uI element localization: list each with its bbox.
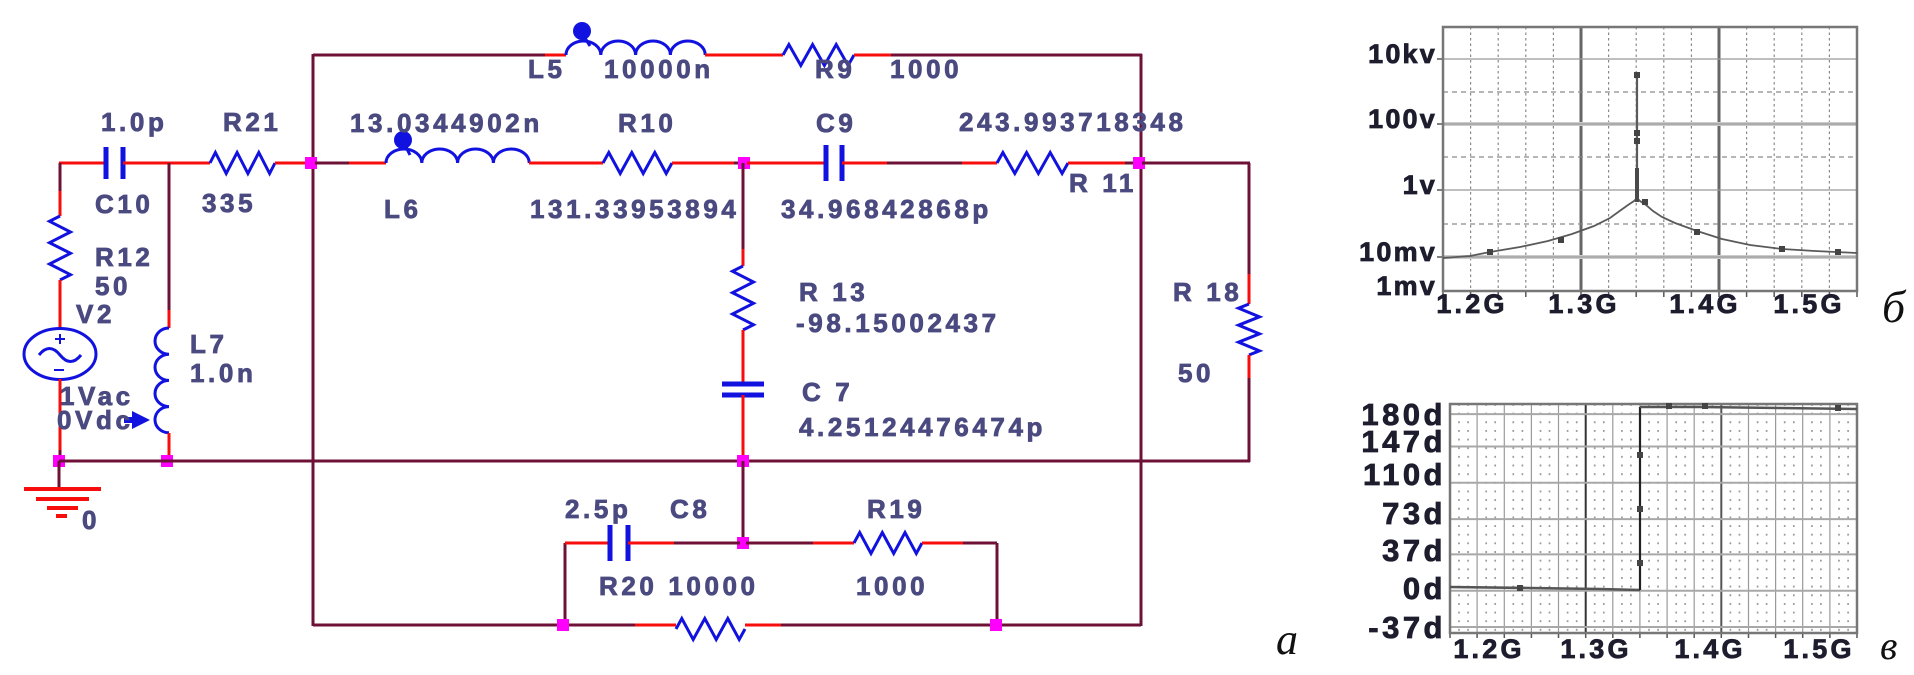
label 0Vdc — [57, 405, 134, 435]
wire R19 right vertical — [996, 543, 999, 626]
label C9 — [816, 108, 856, 138]
wire node to R18 branch — [1142, 162, 1250, 165]
label C7 — [802, 377, 853, 407]
wire C8 left vertical — [564, 543, 567, 626]
svg-text:0Vdc: 0Vdc — [57, 405, 134, 435]
svg-text:R19: R19 — [867, 494, 926, 524]
label 0 ground — [82, 505, 100, 535]
svg-text:R 18: R 18 — [1173, 277, 1242, 307]
label 34.96842868p — [781, 194, 992, 224]
plot b x-axis labels — [1436, 289, 1844, 319]
wire mid-left corner — [59, 162, 106, 165]
svg-text:C10: C10 — [95, 189, 154, 219]
label R20 10000 — [599, 571, 759, 601]
svg-text:1000: 1000 — [890, 54, 962, 84]
svg-text:1.0p: 1.0p — [101, 107, 167, 137]
svg-text:1.3G: 1.3G — [1560, 634, 1631, 664]
wire down to L7 — [168, 163, 171, 328]
label 4.25124476474p — [799, 412, 1046, 442]
source V2 — [24, 329, 96, 380]
node at bottom left — [557, 619, 569, 631]
wire R21 to node — [275, 162, 308, 165]
current marker arrow — [124, 411, 150, 429]
label R12 — [95, 242, 154, 272]
svg-text:2.5p: 2.5p — [565, 494, 631, 524]
label R11 — [1069, 168, 1137, 198]
wire C8 left lead — [565, 542, 610, 545]
label 335 — [202, 188, 256, 218]
svg-text:335: 335 — [202, 188, 256, 218]
svg-text:10kv: 10kv — [1368, 39, 1437, 69]
svg-text:1v: 1v — [1403, 170, 1437, 200]
plot v phase curve — [1450, 407, 1857, 590]
label 243.993718348 — [959, 107, 1187, 137]
svg-text:4.25124476474p: 4.25124476474p — [799, 412, 1046, 442]
wire L6 to R10 — [529, 162, 603, 165]
plot v grid and frame — [1450, 404, 1857, 638]
svg-text:C 7: C 7 — [802, 377, 853, 407]
svg-text:R20 10000: R20 10000 — [599, 571, 759, 601]
svg-text:1.3G: 1.3G — [1548, 289, 1619, 319]
plot v data markers — [1517, 403, 1841, 591]
label 1000 R9 — [890, 54, 962, 84]
svg-text:C8: C8 — [670, 494, 710, 524]
wire R10 to node — [672, 162, 741, 165]
resistor R9 — [783, 45, 854, 66]
label R13 — [799, 277, 868, 307]
svg-text:1mv: 1mv — [1376, 271, 1437, 301]
svg-text:б: б — [1882, 281, 1907, 332]
svg-text:1.4G: 1.4G — [1669, 289, 1740, 319]
label R19 — [867, 494, 926, 524]
resistor R18 — [1239, 304, 1260, 355]
wire node to R13 — [742, 163, 745, 266]
resistor R19 — [854, 533, 922, 554]
label 50 R18 — [1178, 358, 1214, 388]
plot b grid and frame — [1437, 27, 1857, 297]
wire L7 to bus — [168, 433, 171, 461]
svg-text:L7: L7 — [190, 329, 228, 359]
node at L7 bottom — [161, 455, 173, 467]
plot b y-axis labels — [1359, 39, 1437, 301]
node at R21/box junction — [305, 157, 317, 169]
wire node to C9 — [747, 162, 826, 165]
wire down from mid-left corner — [59, 163, 62, 216]
svg-text:R10: R10 — [618, 108, 677, 138]
svg-text:а: а — [1276, 615, 1298, 664]
wire node to R19 — [746, 542, 854, 545]
node at output — [1133, 157, 1145, 169]
svg-text:100v: 100v — [1368, 104, 1437, 134]
svg-text:1000: 1000 — [856, 571, 928, 601]
inductor L6 — [386, 149, 529, 163]
probe dot L6 — [394, 131, 412, 155]
svg-text:R12: R12 — [95, 242, 154, 272]
label 13.0344902n — [350, 108, 543, 138]
plot v x-axis labels — [1453, 634, 1854, 664]
wire R11 to node — [1068, 162, 1138, 165]
plot b data markers — [1487, 72, 1841, 255]
svg-text:R 11: R 11 — [1069, 168, 1137, 198]
label R10 — [618, 108, 677, 138]
wire top bus y=55 — [313, 54, 566, 57]
resistor R10 — [603, 153, 672, 174]
wire L5 to R9 — [705, 54, 783, 57]
label 131.33953894 — [530, 194, 739, 224]
node at bottom right — [990, 619, 1002, 631]
probe dot L5 — [573, 22, 591, 46]
svg-text:0d: 0d — [1403, 571, 1446, 606]
wire C7 to bus — [742, 395, 745, 461]
label 50 R12 — [95, 271, 131, 301]
svg-text:в: в — [1880, 623, 1897, 668]
svg-text:1.4G: 1.4G — [1674, 634, 1745, 664]
label R18 — [1173, 277, 1242, 307]
wire bottom bus y=625 — [313, 624, 676, 627]
plot b response curve — [1443, 198, 1857, 258]
wire R19 to corner — [922, 542, 997, 545]
svg-text:L6: L6 — [384, 194, 422, 224]
svg-text:37d: 37d — [1382, 533, 1446, 568]
svg-text:73d: 73d — [1382, 496, 1446, 531]
caption b — [1882, 281, 1907, 332]
svg-text:R21: R21 — [223, 107, 282, 137]
svg-text:34.96842868p: 34.96842868p — [781, 194, 992, 224]
resistor R20 — [676, 619, 745, 640]
label 10000n — [604, 54, 714, 84]
capacitor C7 — [722, 384, 764, 395]
wire C9 to R11 — [842, 162, 997, 165]
resistor R21 — [210, 153, 275, 174]
label 1.0n — [190, 358, 256, 388]
label R21 — [223, 107, 282, 137]
svg-text:50: 50 — [1178, 358, 1214, 388]
svg-text:L5: L5 — [528, 54, 566, 84]
wire R20 to node — [745, 624, 1141, 627]
svg-text:C9: C9 — [816, 108, 856, 138]
label C10 — [95, 189, 154, 219]
plot b resonance spike — [1636, 75, 1638, 202]
label C8 — [670, 494, 710, 524]
label R9 — [815, 54, 855, 84]
svg-text:R 13: R 13 — [799, 277, 868, 307]
svg-text:10000n: 10000n — [604, 54, 714, 84]
label 1.0p — [101, 107, 167, 137]
resistor R13 — [733, 266, 754, 330]
wire R9 to top-right corner — [854, 54, 1142, 57]
wire C8 to node — [628, 542, 740, 545]
wire node to L6 — [315, 162, 386, 165]
caption a — [1276, 615, 1298, 664]
svg-text:R9: R9 — [815, 54, 855, 84]
svg-text:1.5G: 1.5G — [1773, 289, 1844, 319]
label 1Vac — [60, 381, 134, 411]
node at R13 branch — [738, 157, 750, 169]
svg-text:110d: 110d — [1363, 457, 1446, 492]
svg-text:-98.15002437: -98.15002437 — [796, 308, 1000, 338]
svg-text:147d: 147d — [1361, 424, 1446, 459]
svg-text:-37d: -37d — [1368, 610, 1446, 645]
label L6 — [384, 194, 422, 224]
label L7 — [190, 329, 228, 359]
label V2 — [76, 299, 115, 329]
caption v — [1880, 623, 1897, 668]
wire bus to C8 row — [742, 461, 745, 543]
label 1000 R19 — [856, 571, 928, 601]
wire R12 to V2 — [59, 280, 62, 330]
ground — [24, 461, 101, 516]
node at C8 row — [737, 537, 749, 549]
plot v y-axis labels — [1361, 397, 1446, 645]
inductor L5 — [566, 41, 705, 55]
capacitor C8 — [610, 525, 628, 561]
label -98.15002437 — [796, 308, 1000, 338]
wire V2 to ground node — [59, 379, 62, 461]
wire R18 to bus — [1248, 355, 1251, 462]
svg-text:243.993718348: 243.993718348 — [959, 107, 1187, 137]
resistor R11 — [997, 153, 1068, 174]
svg-text:10mv: 10mv — [1359, 237, 1437, 267]
node at C7 bottom — [737, 455, 749, 467]
wire C10 to R21 — [123, 162, 210, 165]
svg-text:50: 50 — [95, 271, 131, 301]
capacitor C9 — [826, 145, 842, 181]
wire R13 to C7 — [742, 330, 745, 384]
inductor L7 — [155, 328, 169, 433]
svg-text:1.5G: 1.5G — [1783, 634, 1854, 664]
node at ground — [53, 455, 65, 467]
svg-text:1.0n: 1.0n — [190, 358, 256, 388]
capacitor C10 — [106, 147, 123, 179]
label L5 — [528, 54, 566, 84]
label 2.5p — [565, 494, 631, 524]
resistor R12 — [50, 216, 71, 280]
wire R18 branch vertical — [1248, 163, 1251, 304]
svg-text:V2: V2 — [76, 299, 115, 329]
wire right box vertical x=1141 — [1140, 54, 1143, 626]
wire left box vertical x=313 — [312, 54, 315, 626]
wire ground bus y=461 — [59, 460, 1250, 463]
svg-text:1.2G: 1.2G — [1436, 289, 1507, 319]
svg-text:131.33953894: 131.33953894 — [530, 194, 739, 224]
svg-text:13.0344902n: 13.0344902n — [350, 108, 543, 138]
svg-text:1.2G: 1.2G — [1453, 634, 1524, 664]
svg-text:0: 0 — [82, 505, 100, 535]
